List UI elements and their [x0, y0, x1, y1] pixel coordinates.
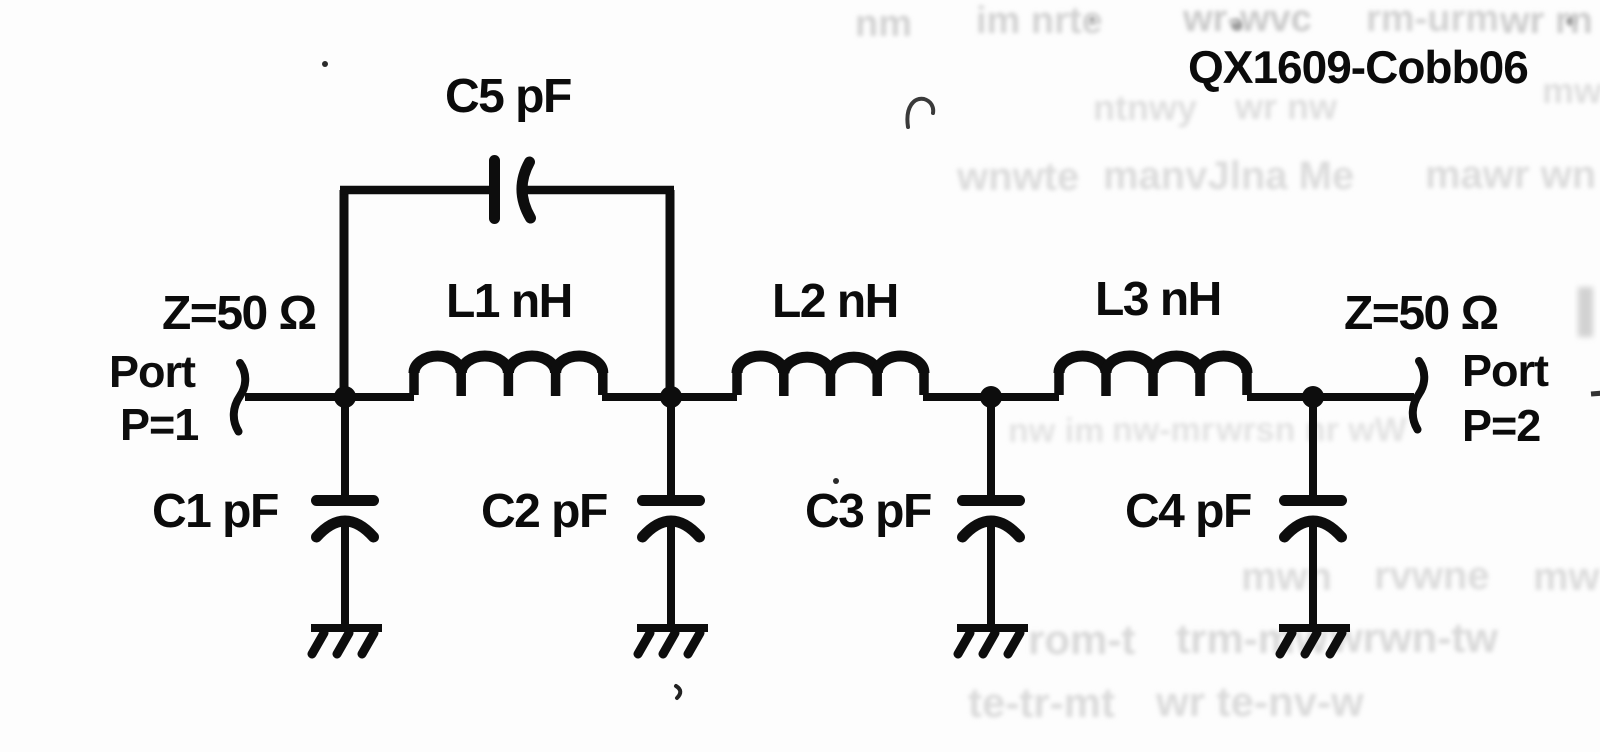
- ground under C4: [1279, 624, 1350, 632]
- wire L1 to L2: [602, 393, 737, 401]
- svg-text:mwn: mwn: [1241, 555, 1332, 599]
- stray dot top left: [322, 61, 328, 67]
- ground under C3: [957, 624, 1028, 632]
- svg-text:wrwn-tw: wrwn-tw: [1329, 614, 1498, 661]
- svg-text:C2 pF: C2 pF: [481, 485, 607, 538]
- svg-text:rvwne: rvwne: [1374, 554, 1490, 598]
- ghost bleed-through text row 7: [968, 678, 1364, 726]
- svg-text:mw: mw: [1533, 555, 1600, 599]
- ghost bleed-through text row 2: [1093, 70, 1600, 128]
- svg-text:Port: Port: [1462, 345, 1549, 396]
- svg-text:wr te-nv-w: wr te-nv-w: [1155, 678, 1364, 725]
- svg-text:nw-mr: nw-mr: [1112, 411, 1214, 449]
- stray hook mark: [907, 99, 933, 127]
- ghost bleed-through text row 4: [1008, 411, 1408, 450]
- port P2 symbol: [1413, 361, 1424, 430]
- ghost bleed-through text row 5: [1241, 554, 1600, 599]
- svg-text:L2 nH: L2 nH: [772, 275, 898, 328]
- C5 bridge right vertical wire: [666, 190, 675, 397]
- svg-text:P=1: P=1: [120, 399, 198, 450]
- svg-text:mw: mw: [1542, 70, 1600, 111]
- capacitor C2: [667, 397, 675, 496]
- stray comma below C2 ground: [676, 686, 680, 698]
- port P1 symbol: [234, 363, 245, 432]
- svg-text:nw im: nw im: [1008, 412, 1104, 450]
- junction node dots: [334, 386, 1324, 408]
- C5 bridge top wire left: [340, 186, 490, 195]
- svg-text:wnwte: wnwte: [956, 155, 1079, 199]
- svg-text:C5 pF: C5 pF: [445, 70, 571, 123]
- svg-text:ntnwy: ntnwy: [1093, 87, 1197, 128]
- node J2: [660, 386, 682, 408]
- node J4: [1302, 386, 1324, 408]
- svg-text:C3 pF: C3 pF: [805, 485, 931, 538]
- svg-text:Z=50 Ω: Z=50 Ω: [1344, 287, 1498, 340]
- node J3: [980, 386, 1002, 408]
- svg-text:manvJlna Me: manvJlna Me: [1103, 154, 1354, 198]
- svg-text:wr-wvc: wr-wvc: [1182, 0, 1312, 40]
- wire L3 to port2: [1247, 393, 1414, 401]
- stray dash right edge: [1591, 393, 1600, 394]
- inductor L2: [737, 356, 924, 396]
- wire L2 to L3: [923, 393, 1059, 401]
- svg-text:P=2: P=2: [1462, 400, 1540, 451]
- svg-text:Port: Port: [109, 346, 196, 397]
- C5 bridge top wire right: [523, 186, 674, 195]
- inductor L3: [1059, 356, 1247, 396]
- svg-text:rm-urm: rm-urm: [1366, 0, 1499, 40]
- ghost bleed-through text row 3: [956, 153, 1596, 199]
- capacitor C1: [341, 397, 349, 496]
- ghost right-edge streak: [1578, 287, 1593, 337]
- capacitor C5 plates: [489, 161, 500, 219]
- svg-text:C1 pF: C1 pF: [152, 485, 278, 538]
- ground under C2: [637, 624, 708, 632]
- ghost bleed-through text row 6: [1028, 614, 1498, 663]
- node J1: [334, 386, 356, 408]
- svg-text:L1 nH: L1 nH: [446, 275, 572, 328]
- svg-text:nm: nm: [855, 3, 912, 45]
- capacitor C4: [1309, 397, 1317, 496]
- svg-text:te-tr-mt: te-tr-mt: [968, 679, 1115, 726]
- svg-text:im nrte: im nrte: [976, 0, 1103, 42]
- svg-text:L3 nH: L3 nH: [1095, 273, 1221, 326]
- ground under C1: [311, 624, 382, 632]
- svg-text:mawr wn: mawr wn: [1425, 153, 1596, 197]
- inductor L1: [414, 356, 603, 396]
- ghost bleed-through text row 1: [855, 0, 1593, 45]
- wire port1 to L1: [245, 393, 414, 401]
- stray dot near C3 label: [833, 478, 839, 484]
- svg-text:rom-t: rom-t: [1028, 616, 1135, 663]
- capacitor C3: [987, 397, 995, 496]
- ghost dark specks: [1088, 16, 1576, 31]
- svg-text:C4 pF: C4 pF: [1125, 485, 1251, 538]
- svg-text:wr rn: wr rn: [1499, 0, 1593, 42]
- svg-text:Z=50 Ω: Z=50 Ω: [162, 287, 316, 340]
- C5 bridge left vertical wire: [340, 190, 349, 397]
- svg-text:QX1609-Cobb06: QX1609-Cobb06: [1188, 41, 1528, 93]
